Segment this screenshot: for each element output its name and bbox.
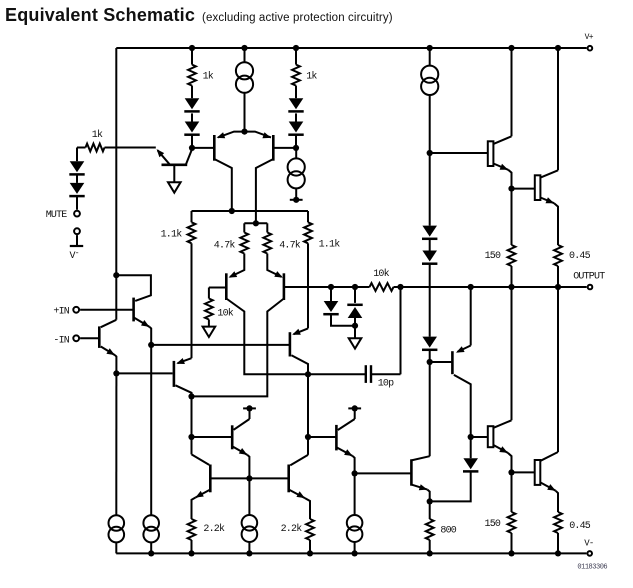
svg-text:1.1k: 1.1k (319, 238, 341, 250)
wire mute drop (76, 148, 78, 162)
node P (249.4,478.4) (246, 475, 252, 481)
svg-text:2.2k: 2.2k (281, 523, 303, 535)
resistor R16 0.45 (554, 512, 591, 553)
resistor R6 4.7k (263, 223, 300, 253)
arrow symbol under clamp (349, 326, 362, 349)
svg-text:OUTPUT: OUTPUT (573, 272, 605, 283)
svg-text:800: 800 (440, 526, 456, 537)
svg-text:01183306: 01183306 (577, 564, 607, 572)
node stub below I2 (290, 197, 303, 203)
wire Q21 base line (512, 471, 535, 473)
resistor R8 10k (to feedback arrow) (205, 288, 234, 327)
svg-text:+IN: +IN (53, 307, 69, 318)
wire Q12 base line (430, 152, 489, 154)
diode D2 (184, 113, 199, 147)
resistor R10 150 (485, 189, 516, 287)
arrow symbol under R8 (203, 327, 216, 337)
diode D11 (422, 337, 437, 362)
transistor Q3 (mute PNP) (157, 149, 193, 183)
diode D12 (430, 437, 479, 501)
wire bias column lower (429, 362, 431, 456)
node O (308,437) (305, 434, 311, 440)
wire base line to Q9 (151, 344, 290, 346)
ground arrow under Q3 (168, 182, 181, 192)
terminal MUTE (46, 210, 80, 221)
wire bus2 (244, 220, 267, 226)
node X1 (308,374.3) (305, 371, 311, 377)
diode D8 (347, 287, 362, 326)
transistor Q19 (VAS NPN) (411, 456, 429, 501)
diode D1 (184, 98, 199, 111)
transistor Q16 (beta helper right) (308, 408, 355, 473)
title text (5, 5, 393, 25)
diode D5 (69, 161, 84, 174)
wire X1 to node O (307, 374, 309, 437)
resistor R11 0.45 (554, 245, 591, 287)
resistor R7 1.1k (304, 211, 340, 328)
node stub M (348, 405, 361, 411)
resistor R2 1k (292, 48, 317, 98)
transistor Q18 (mirror right) (289, 437, 310, 519)
diode D3 (288, 98, 303, 111)
transistor Q8 (PNP mid-left) (174, 358, 192, 396)
transistor Q14 (PNP bias) (430, 287, 471, 437)
svg-text:1k: 1k (306, 71, 317, 83)
node X2 (191.5,396.4) (188, 393, 194, 399)
svg-text:1.1k: 1.1k (161, 229, 183, 241)
terminal V- (584, 538, 593, 555)
svg-text:(excluding active protection c: (excluding active protection circuitry) (202, 12, 393, 24)
svg-text:0.45: 0.45 (569, 521, 591, 532)
transistor Q6 (pair2 left) (209, 254, 308, 375)
transistor Q17 (mirror left) (192, 454, 211, 519)
diode D9 (422, 153, 437, 239)
resistor R3 1k (mute) (77, 129, 156, 151)
capacitor C1 10p (308, 287, 401, 390)
svg-text:1k: 1k (203, 71, 214, 83)
node top-rail junctions (189, 45, 561, 51)
svg-text:2.2k: 2.2k (203, 523, 225, 535)
resistor R14 800 (426, 501, 457, 553)
node S (511.5,188.6) (508, 186, 514, 192)
current source I1 (236, 48, 253, 132)
svg-text:10k: 10k (217, 307, 233, 319)
terminal +IN (53, 307, 79, 318)
node I (429.7,362) (427, 359, 433, 365)
resistor R15 150 (485, 472, 516, 553)
svg-text:150: 150 (485, 251, 501, 262)
svg-text:10k: 10k (373, 268, 389, 280)
wire X2 to mirror (191, 396, 193, 454)
svg-text:4.7k: 4.7k (214, 240, 236, 252)
transistor Q7 (pair2 right) (192, 254, 284, 397)
transistor Q21 (bottom output) (535, 287, 558, 512)
node D (116.3,275.2) (113, 272, 119, 278)
node bottom-rail junctions (148, 550, 561, 556)
wire mirror base rail (210, 477, 288, 479)
node T (511.5,472.4) (508, 469, 514, 475)
node G (355,325.7) (352, 323, 358, 329)
resistor R12 2.2k (188, 519, 225, 553)
wire base line to Q8 (116, 372, 172, 374)
transistor Q11 (-IN) (80, 320, 116, 374)
transistor Q20 (bottom driver) (471, 287, 512, 472)
svg-text:Equivalent Schematic: Equivalent Schematic (5, 5, 195, 25)
document number (577, 564, 607, 572)
wire left supply bus (115, 48, 117, 320)
transistor Q12 (top driver) (488, 48, 512, 189)
terminal -IN (53, 335, 79, 346)
transistor Q15 (beta helper left) (192, 408, 250, 478)
node R (429.7,501.4) (427, 498, 433, 504)
diode D10 (422, 239, 437, 337)
wire V+ rail (116, 47, 586, 49)
svg-text:V+: V+ (585, 33, 594, 42)
current source I7 (347, 473, 363, 553)
svg-text:-IN: -IN (53, 335, 69, 346)
node A (192,148) (189, 145, 195, 151)
pin V- (mute pulldown) (70, 228, 84, 261)
node H (429.7,153) (427, 150, 433, 156)
svg-text:150: 150 (485, 519, 501, 530)
wire V- bottom rail (116, 552, 586, 554)
resistor R1 1k (188, 48, 214, 98)
svg-text:V-: V- (584, 538, 593, 548)
wire Q19 base line (355, 472, 412, 474)
diode D7 (323, 287, 355, 326)
transistor Q5 (pair1 right) (245, 132, 297, 224)
transistor Q9 (PNP mid-right) (290, 328, 308, 374)
node C (244.5,131.6) (241, 129, 247, 135)
wire Q13 base line (512, 188, 536, 190)
resistor R13 2.2k (281, 519, 314, 553)
current source I3 (421, 48, 438, 153)
current source I5 (143, 345, 159, 554)
resistor R4 1.1k (161, 211, 196, 358)
diode D4 (288, 113, 303, 147)
svg-text:1k: 1k (92, 129, 103, 141)
node Q (354.6,473.4) (352, 470, 358, 476)
terminal OUTPUT (573, 272, 605, 290)
svg-text:4.7k: 4.7k (279, 240, 301, 252)
node N (191.5,437) (188, 434, 194, 440)
current source I6 (242, 478, 258, 553)
svg-text:10p: 10p (378, 379, 394, 390)
diode D6 (69, 174, 84, 210)
svg-text:0.45: 0.45 (569, 251, 591, 262)
node B (296,148) (293, 145, 299, 151)
svg-text:MUTE: MUTE (46, 210, 68, 221)
wire bus1 (192, 208, 309, 214)
resistor R9 10k (feedback) (370, 268, 394, 291)
wire output line (284, 286, 587, 288)
node F (151.2,344.9) (148, 342, 154, 348)
terminal V+ (585, 33, 594, 51)
node output-line junctions (328, 284, 561, 290)
node E (116.4,373.4) (113, 370, 119, 376)
node J (470.7,437) (468, 434, 474, 440)
transistor Q4 (pair1 left) (192, 132, 245, 211)
current source I2 (288, 148, 305, 197)
transistor Q13 (top output) (535, 48, 558, 245)
transistor Q10 (+IN) (80, 275, 151, 345)
node stub K (243, 405, 256, 411)
current source I4 (109, 373, 125, 553)
resistor R5 4.7k (214, 223, 248, 253)
